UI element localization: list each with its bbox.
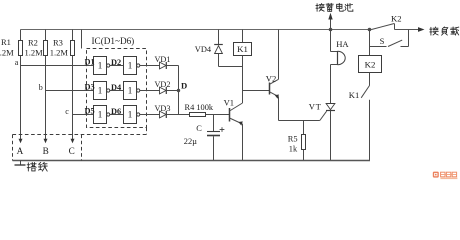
svg-text:K1: K1: [237, 44, 248, 54]
svg-text:D6: D6: [111, 107, 121, 116]
svg-text:1: 1: [98, 111, 103, 121]
svg-text:S: S: [380, 36, 385, 46]
svg-text:1: 1: [128, 62, 133, 72]
svg-text:IC(D1~D6): IC(D1~D6): [92, 36, 135, 46]
svg-text:D1: D1: [85, 58, 95, 67]
svg-text:D: D: [181, 81, 187, 91]
svg-text:V1: V1: [224, 97, 235, 107]
svg-text:1.2M: 1.2M: [25, 47, 44, 57]
svg-text:A: A: [17, 146, 24, 156]
svg-text:VD2: VD2: [155, 80, 171, 89]
svg-text:c: c: [65, 107, 69, 116]
svg-text:K2: K2: [391, 13, 402, 23]
svg-text:V2: V2: [266, 74, 277, 84]
svg-text:B: B: [43, 146, 49, 156]
svg-text:C: C: [196, 124, 202, 133]
svg-text:R1: R1: [1, 37, 11, 47]
svg-text:R3: R3: [53, 38, 63, 48]
svg-text:R4 100k: R4 100k: [185, 103, 214, 112]
svg-text:K1: K1: [349, 90, 360, 100]
svg-text:a: a: [15, 58, 19, 67]
svg-text:1.2M: 1.2M: [50, 47, 69, 57]
svg-text:b: b: [39, 83, 43, 92]
svg-text:D2: D2: [111, 58, 121, 67]
svg-text:22µ: 22µ: [184, 137, 197, 146]
svg-text:1: 1: [128, 111, 133, 121]
svg-text:D4: D4: [111, 83, 121, 92]
svg-text:1.2M: 1.2M: [0, 47, 14, 57]
svg-text:R2: R2: [28, 38, 38, 48]
svg-text:VT: VT: [309, 101, 322, 111]
svg-text:1: 1: [128, 87, 133, 97]
svg-text:1k: 1k: [289, 144, 298, 153]
svg-text:D3: D3: [85, 83, 95, 92]
svg-text:D5: D5: [85, 107, 95, 116]
svg-text:1: 1: [98, 87, 103, 97]
svg-text:HA: HA: [336, 39, 349, 49]
svg-text:VD1: VD1: [155, 55, 171, 64]
svg-text:C: C: [69, 146, 75, 156]
svg-text:R5: R5: [288, 134, 298, 143]
svg-text:1: 1: [98, 62, 103, 72]
svg-text:K2: K2: [365, 60, 376, 70]
svg-text:VD4: VD4: [195, 45, 212, 54]
svg-text:VD3: VD3: [155, 104, 171, 113]
